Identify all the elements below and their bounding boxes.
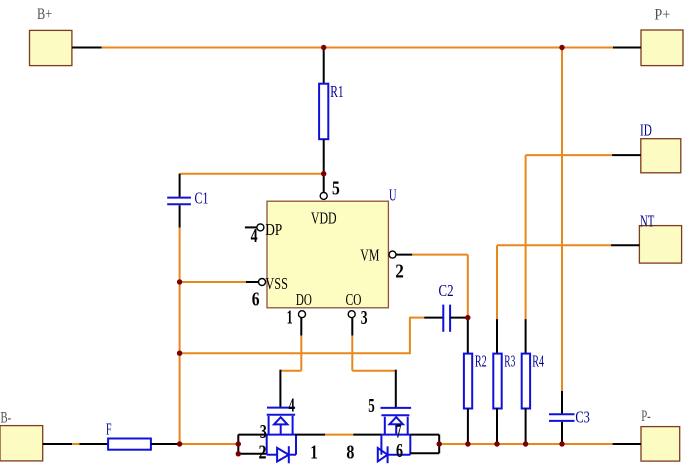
wire ID horizontal [526,154,613,156]
transistor Q2 (N-MOSFET) [378,408,411,463]
wire ID pin stub [612,154,641,156]
svg-text:R1: R1 [330,82,344,101]
svg-text:4: 4 [289,395,295,417]
wire fuse left stub [80,443,109,445]
port ID [640,120,681,172]
resistor R4 [522,155,545,444]
wire top rail B+ to P+ [102,47,613,49]
wire CO vertical [351,336,353,371]
svg-text:VSS: VSS [265,274,288,293]
IC pin 1 circle (DO) [299,311,306,318]
port P+ [641,7,683,66]
IC pin 6 circle (VSS) [259,279,266,286]
junction top rail at P+ column [559,45,564,50]
wire B+ pin stub [72,47,102,49]
junction VDD node [321,171,326,176]
wire C2 left lead orange [410,317,424,319]
wire mid rail orange [325,434,353,436]
wire CO to gate Q2 [352,370,396,372]
wire B- pin stub [43,443,72,445]
wire DO to gate Q1 [280,370,301,372]
svg-text:3: 3 [260,421,267,443]
wire Q1 pin 3 [238,434,267,436]
junction bottom rail at Q2 [437,441,442,446]
junction VSS pin [177,279,182,284]
wire bottom rail orange [439,443,612,445]
wire VDD node to C1 [180,173,324,175]
IC pin 4 circle (DP) [257,224,264,231]
resistor R1 [319,48,344,193]
svg-text:CO: CO [346,290,362,309]
port B+ [30,6,72,66]
wire gate Q2 lead [395,370,397,408]
junction top rail at R1 [321,45,326,50]
wire VM horizontal [412,254,468,256]
wire fuse right stub [151,443,180,445]
wire P+ pin stub [613,47,641,49]
svg-text:R4: R4 [532,352,544,371]
svg-text:VDD: VDD [311,209,337,228]
wire Q2 right riser [438,435,440,454]
svg-text:1: 1 [287,306,293,328]
svg-text:DP: DP [265,220,282,239]
svg-text:1: 1 [310,441,318,463]
wire mid rail black left [295,434,325,436]
svg-text:6: 6 [252,289,260,311]
wire VSS branch horizontal [180,352,410,354]
IC pin 5 circle [320,192,327,199]
wire VM vertical to C2 node [467,255,469,318]
port P- [641,408,680,461]
wire VSS branch riser to C2 [409,317,411,354]
capacitor C2 [439,281,454,332]
wire C2 right pin stub [450,317,468,319]
svg-text:5: 5 [368,395,375,417]
port NT [639,212,681,264]
junction bottom rail at C3 [559,441,564,446]
svg-text:R3: R3 [504,352,515,371]
svg-text:8: 8 [346,441,354,463]
capacitor C3 [549,391,590,444]
wire P- pin stub [613,443,641,445]
wire mid rail black right [353,434,381,436]
junction B- rail at Q1 [236,441,241,446]
wire CO pin stub [351,318,353,336]
svg-text:F: F [106,420,112,439]
resistor R2 [464,318,487,444]
wire VSS pin to column [180,281,246,283]
svg-text:U: U [389,186,397,205]
IC pin 2 circle (VM) [389,251,396,258]
svg-text:VM: VM [360,246,379,265]
junction VSS branch [177,351,182,356]
svg-text:4: 4 [251,225,258,247]
svg-text:2: 2 [395,260,404,282]
wire Q2 pin 7 [410,434,439,436]
svg-text:ID: ID [640,120,652,139]
svg-text:R2: R2 [475,352,487,371]
wire NT pin stub [611,244,639,246]
wire VSS column vertical [179,228,181,445]
junction bottom rail at R4 [523,441,528,446]
svg-text:6: 6 [396,440,403,462]
wire Q1 pin 2 [238,453,267,455]
transistor Q1 (N-MOSFET) [267,408,296,464]
junction bottom rail at R3 [494,441,499,446]
wire VM pin stub [396,254,412,256]
junction C2-R2-VM node [465,315,470,320]
IC U1 box [267,201,388,308]
wire gate Q1 lead [279,370,281,408]
svg-text:B-: B- [1,409,12,426]
junction bottom rail at R2 [465,441,470,446]
svg-text:DO: DO [296,290,312,309]
svg-text:B+: B+ [37,6,52,23]
port B- [0,409,43,461]
wire NT horizontal [497,244,611,246]
wire DO pin stub [300,318,302,336]
IC pin 4 stub [245,226,257,228]
wire B- rail to Q1 [180,443,239,445]
svg-text:P+: P+ [654,7,670,24]
resistor R3 [493,245,515,444]
svg-text:2: 2 [259,441,267,463]
svg-text:C2: C2 [439,281,454,300]
junction B- rail at column [177,441,182,446]
wire VSS pin stub [246,281,259,283]
junction Q1 pin 2 [236,451,241,456]
capacitor C1 [167,174,208,228]
wire Q2 pin 6 [410,452,439,454]
wire P+ column vertical [561,48,563,392]
svg-text:C3: C3 [575,408,590,427]
svg-text:P-: P- [641,408,651,425]
svg-text:5: 5 [332,178,340,200]
svg-text:NT: NT [640,212,655,231]
svg-text:3: 3 [361,307,368,329]
svg-text:C1: C1 [195,189,209,208]
wire DO vertical [300,336,302,371]
wire B- rail orange piece [72,443,79,445]
fuse F [106,420,151,450]
wire Q1 source/drain riser [237,435,239,454]
wire C2 left pin stub [424,317,443,319]
IC pin 3 circle (CO) [348,311,355,318]
